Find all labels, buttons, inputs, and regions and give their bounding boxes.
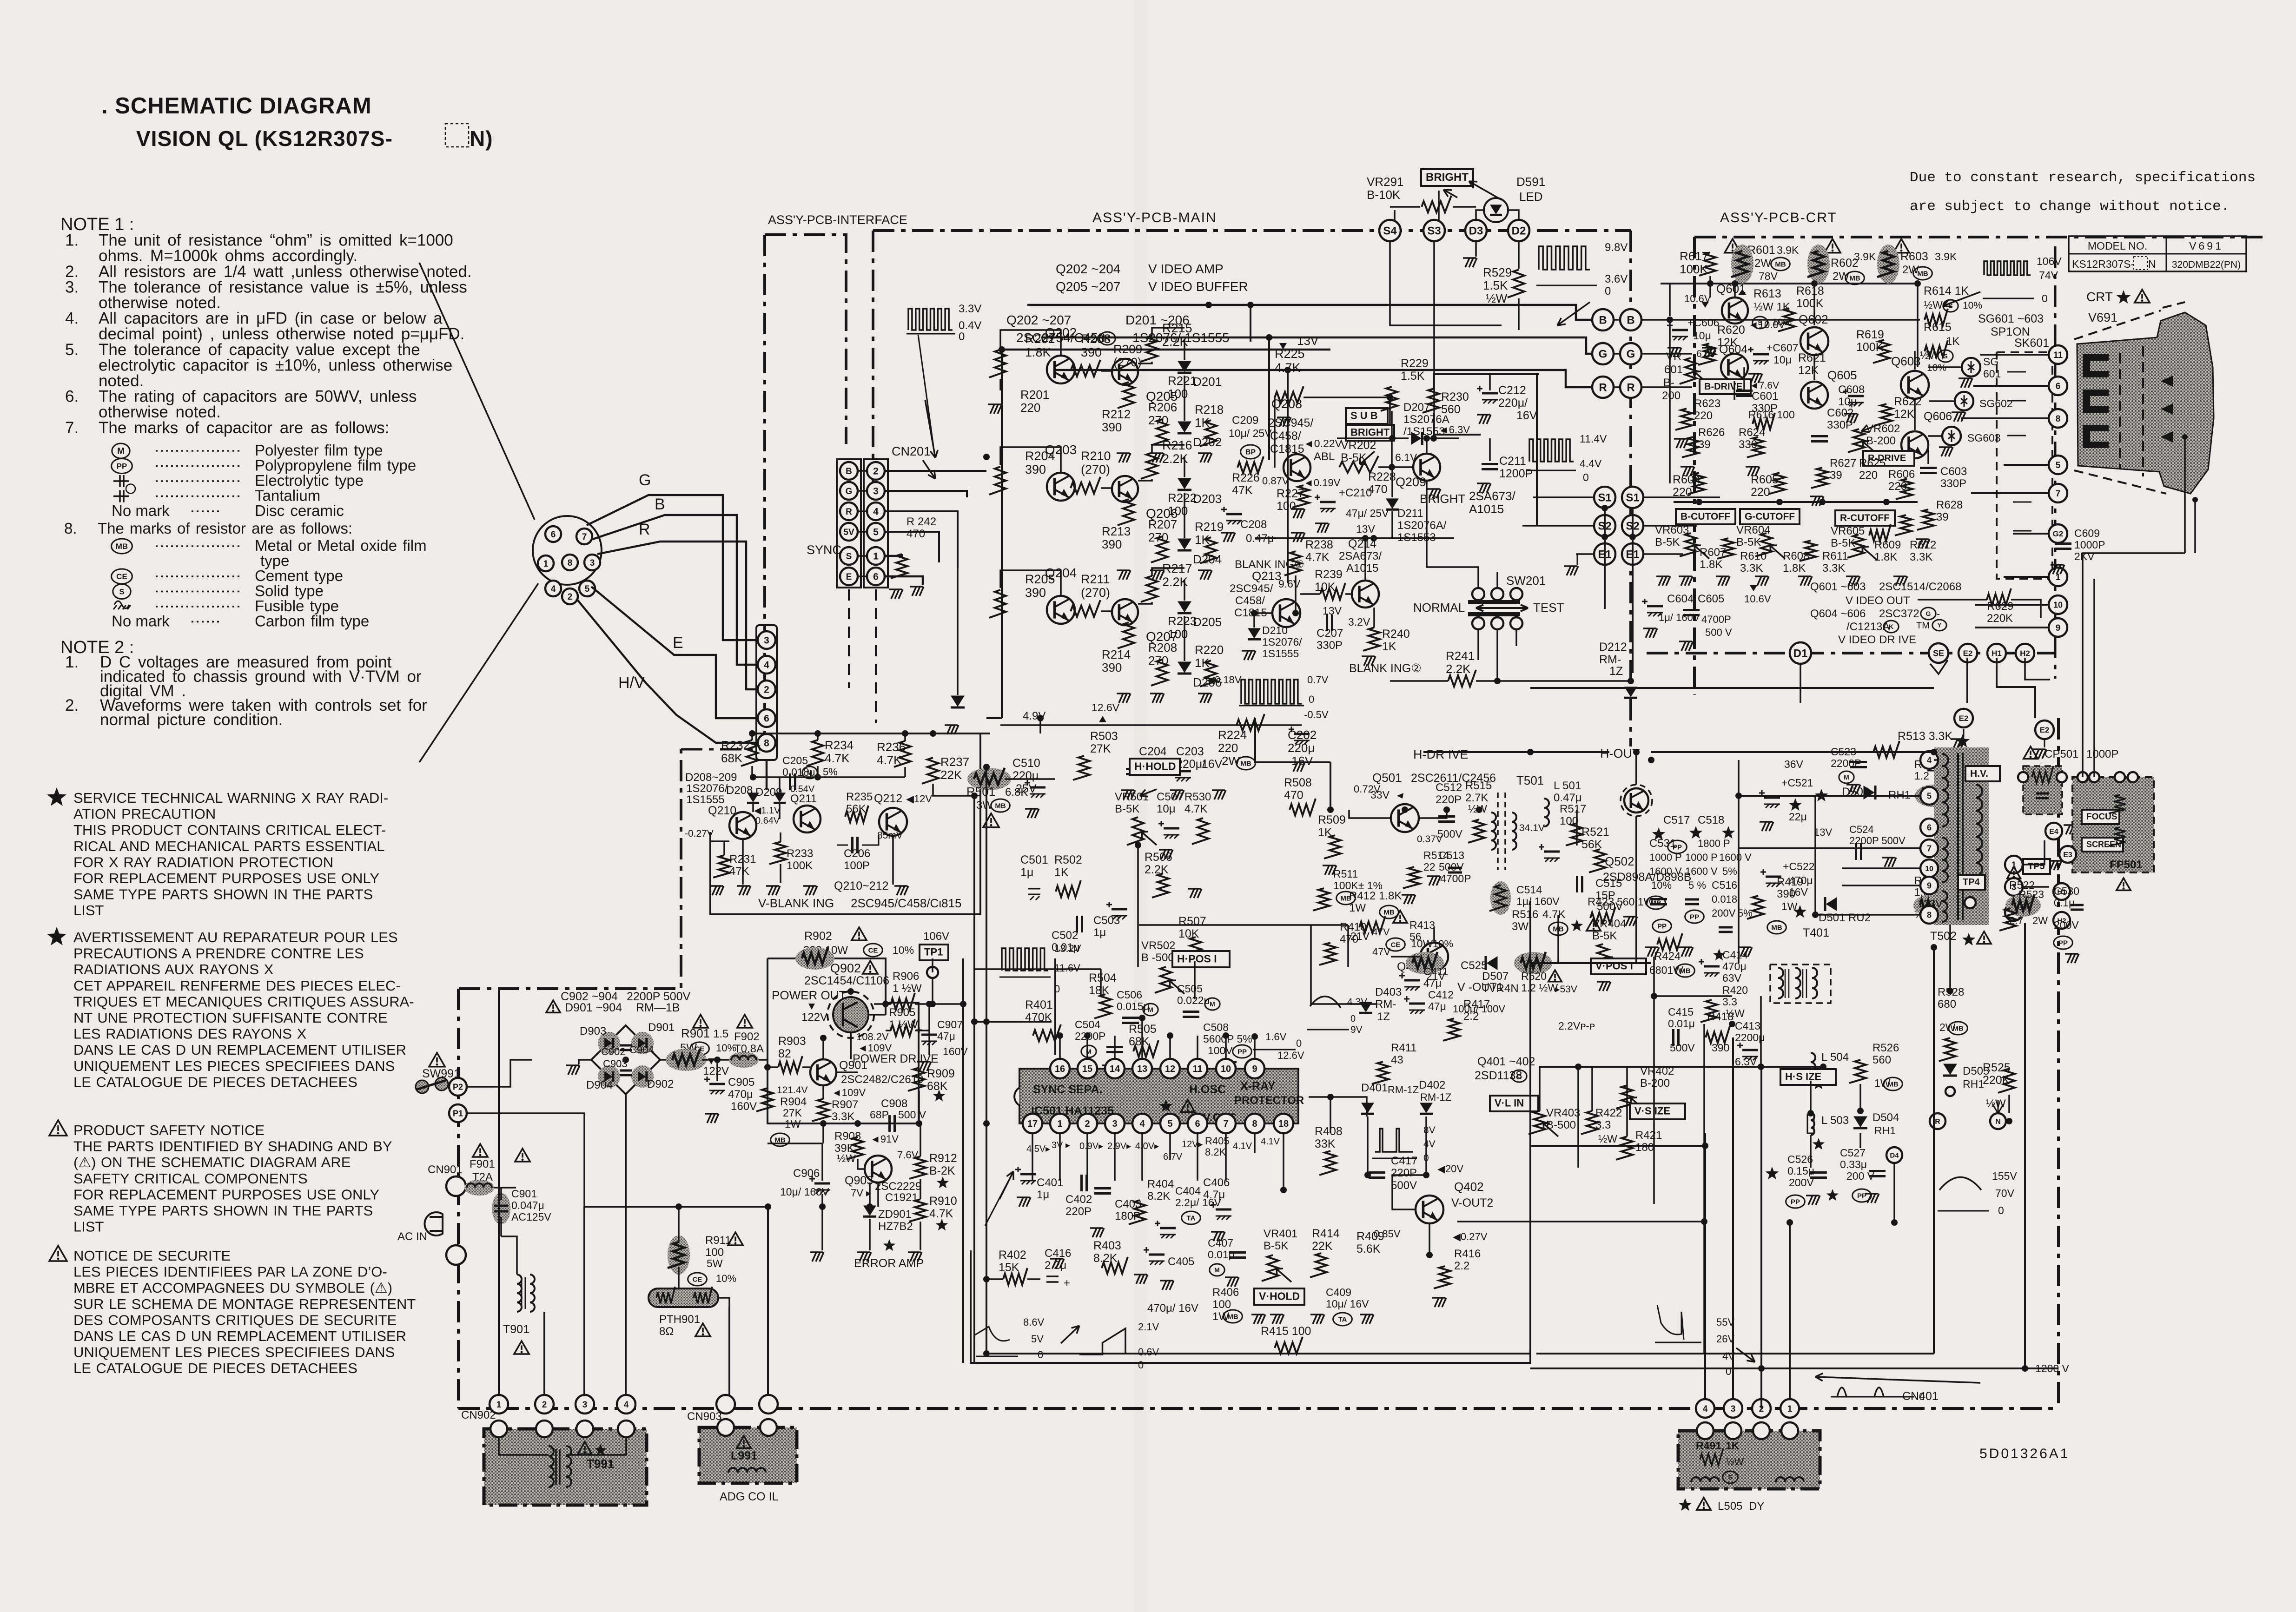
svg-text:9.8V: 9.8V bbox=[1605, 241, 1628, 254]
wire rail sync to amp B bbox=[885, 470, 986, 472]
svg-text:470: 470 bbox=[906, 528, 925, 540]
svg-text:2.2K: 2.2K bbox=[1145, 863, 1169, 876]
svg-text:C211: C211 bbox=[1499, 455, 1526, 468]
svg-text:6: 6 bbox=[551, 530, 556, 540]
svg-text:2: 2 bbox=[873, 466, 879, 477]
svg-text:DY: DY bbox=[1749, 1500, 1764, 1513]
svg-text:V-OUT2: V-OUT2 bbox=[1451, 1196, 1493, 1209]
FP501 box bbox=[2072, 777, 2154, 872]
svg-text:2.2: 2.2 bbox=[1454, 1260, 1469, 1272]
svg-text:R: R bbox=[1627, 382, 1634, 394]
svg-text:C908: C908 bbox=[881, 1097, 907, 1110]
svg-text:100K: 100K bbox=[787, 859, 813, 872]
sync pin 5V link bbox=[858, 531, 867, 533]
flyback T502 bbox=[1934, 747, 1989, 925]
NORMAL-TEST vertical wires bbox=[1604, 508, 1606, 576]
svg-text:Q205 ~207: Q205 ~207 bbox=[1056, 279, 1120, 294]
IC501 pin 14 bbox=[1105, 1059, 1125, 1078]
svg-text:R: R bbox=[846, 507, 852, 517]
svg-text:FOR REPLACEMENT PURPOSES US: FOR REPLACEMENT PURPOSES USE ONLY bbox=[73, 1186, 379, 1202]
svg-text:4.0V▸: 4.0V▸ bbox=[1135, 1141, 1159, 1151]
svg-text:11: 11 bbox=[1192, 1064, 1202, 1074]
svg-text:R526: R526 bbox=[1873, 1042, 1899, 1054]
svg-text:3.3K: 3.3K bbox=[1910, 551, 1932, 563]
H-SIZE box bbox=[1780, 1069, 1836, 1085]
svg-text:C601: C601 bbox=[1752, 390, 1778, 403]
power boundary jog bbox=[459, 749, 681, 989]
svg-text:4: 4 bbox=[1139, 1119, 1145, 1129]
svg-text:3: 3 bbox=[764, 635, 769, 646]
svg-text:2: 2 bbox=[1085, 1119, 1090, 1129]
note1 capacitor mark legend bbox=[112, 443, 130, 458]
svg-text:4: 4 bbox=[624, 1400, 629, 1410]
svg-text:5: 5 bbox=[585, 584, 590, 594]
crt pin 7 bbox=[2049, 484, 2067, 502]
svg-text:1μ/ 160V: 1μ/ 160V bbox=[1516, 895, 1560, 907]
sync pin 5V bbox=[840, 523, 858, 541]
svg-text:15K: 15K bbox=[999, 1261, 1019, 1274]
svg-text:3: 3 bbox=[873, 486, 879, 497]
svg-text:10: 10 bbox=[1925, 865, 1933, 873]
svg-text:TM: TM bbox=[1916, 621, 1930, 631]
svg-text:3.3: 3.3 bbox=[1722, 996, 1737, 1008]
svg-text:470μ: 470μ bbox=[1789, 874, 1813, 886]
svg-text:PP: PP bbox=[2058, 939, 2068, 947]
svg-text:68K: 68K bbox=[1129, 1035, 1150, 1048]
svg-text:VR502: VR502 bbox=[1141, 939, 1175, 952]
svg-text:D208~209: D208~209 bbox=[685, 771, 737, 784]
svg-text:R230: R230 bbox=[1441, 390, 1469, 403]
svg-text:R501: R501 bbox=[966, 785, 995, 799]
svg-text:56K: 56K bbox=[846, 803, 866, 815]
svg-text:R613: R613 bbox=[1753, 287, 1781, 300]
DIN pin 3 bbox=[584, 555, 600, 570]
wire hout rail long bbox=[1423, 751, 1530, 753]
svg-text:5D01326A1: 5D01326A1 bbox=[1979, 1446, 2070, 1461]
svg-text:26V: 26V bbox=[1716, 1333, 1734, 1345]
svg-text:R240: R240 bbox=[1382, 628, 1410, 641]
svg-text:470μ: 470μ bbox=[728, 1088, 753, 1101]
svg-text:R627: R627 bbox=[1830, 457, 1856, 469]
svg-text:KS12R307S-: KS12R307S- bbox=[2072, 258, 2134, 270]
svg-text:R521: R521 bbox=[1581, 826, 1609, 839]
svg-text:2SC1514/C2068: 2SC1514/C2068 bbox=[1879, 581, 1961, 593]
svg-text:2200P 500V: 2200P 500V bbox=[1849, 835, 1906, 846]
D505 labels bbox=[1943, 1064, 1957, 1075]
svg-text:S: S bbox=[1948, 302, 1952, 310]
svg-text:CP501: CP501 bbox=[2045, 748, 2078, 760]
svg-text:100: 100 bbox=[1277, 500, 1296, 513]
svg-text:8.: 8. bbox=[64, 520, 77, 537]
wire rail hout top bbox=[1530, 751, 1609, 753]
svg-text:H·S IZE: H·S IZE bbox=[1785, 1071, 1821, 1083]
P1 conn bbox=[449, 1104, 467, 1122]
sw201 right rail bbox=[1536, 374, 1538, 525]
wire flyback 9 wire bbox=[1842, 885, 1920, 886]
svg-text:VR202: VR202 bbox=[1341, 439, 1376, 452]
svg-text:+C606: +C606 bbox=[1687, 317, 1719, 329]
B-DRIVE box bbox=[1700, 379, 1751, 394]
svg-text:10%: 10% bbox=[1433, 938, 1453, 950]
svg-text:MB: MB bbox=[1917, 270, 1928, 277]
svg-text:X-RAY: X-RAY bbox=[1240, 1080, 1276, 1093]
svg-text:9: 9 bbox=[2056, 623, 2061, 633]
svg-text:G: G bbox=[1627, 348, 1635, 361]
svg-text:5%: 5% bbox=[1722, 865, 1737, 877]
svg-text:SAME TYPE PARTS SHOWN IN: SAME TYPE PARTS SHOWN IN THE PARTS bbox=[73, 886, 373, 903]
svg-text:0: 0 bbox=[2042, 292, 2048, 304]
svg-text:108.2V: 108.2V bbox=[856, 1031, 889, 1043]
svg-text:R210: R210 bbox=[1081, 449, 1111, 463]
E2 conn lower bbox=[1954, 709, 1973, 727]
svg-text:L 504: L 504 bbox=[1821, 1051, 1849, 1064]
svg-text:106V: 106V bbox=[2037, 255, 2062, 267]
DIN pin 2 bbox=[562, 588, 578, 604]
svg-text:+C607: +C607 bbox=[1767, 342, 1798, 354]
svg-text:R912: R912 bbox=[929, 1152, 957, 1165]
svg-text:Q603: Q603 bbox=[1891, 354, 1921, 368]
svg-text:2: 2 bbox=[764, 685, 769, 695]
R601 shaded 2W bbox=[1725, 239, 1740, 253]
svg-text:C902: C902 bbox=[601, 1046, 626, 1057]
svg-text:+C522: +C522 bbox=[1783, 860, 1814, 872]
svg-text:FP501: FP501 bbox=[2110, 859, 2143, 871]
svg-text:10: 10 bbox=[1221, 1064, 1231, 1074]
svg-text:B-5K: B-5K bbox=[1264, 1240, 1288, 1252]
svg-text:E: E bbox=[846, 572, 852, 582]
svg-text:◄0.19V: ◄0.19V bbox=[1303, 477, 1341, 489]
svg-text:4.1V: 4.1V bbox=[1233, 1141, 1252, 1151]
bus powerrail x2122 bbox=[986, 1022, 987, 1354]
wire q401 base wire bbox=[1391, 956, 1420, 958]
svg-text:RH1: RH1 bbox=[1963, 1078, 1984, 1090]
svg-text:2W: 2W bbox=[1754, 257, 1771, 270]
video bias diode bbox=[951, 696, 965, 707]
svg-text:16V: 16V bbox=[1202, 758, 1223, 771]
crt funnel drop wires bbox=[2083, 553, 2185, 590]
wire ic pin13 up bbox=[1141, 1018, 1143, 1059]
notice de securite bbox=[49, 1246, 67, 1261]
svg-text:R517: R517 bbox=[1560, 803, 1586, 815]
svg-text:10.6V: 10.6V bbox=[1744, 593, 1771, 605]
svg-text:C458/: C458/ bbox=[1235, 595, 1265, 607]
bus pwr out col bbox=[868, 1014, 886, 1016]
svg-text:◄91V: ◄91V bbox=[870, 1133, 899, 1145]
wire R bbox=[597, 542, 755, 689]
svg-text:V IDEO DR IVE: V IDEO DR IVE bbox=[1838, 634, 1916, 646]
svg-text:E2: E2 bbox=[1959, 714, 1969, 723]
svg-text:SYNC SEPA.: SYNC SEPA. bbox=[1033, 1083, 1103, 1096]
svg-text:R418: R418 bbox=[1707, 1011, 1734, 1023]
svg-text:V-BLANK ING: V-BLANK ING bbox=[758, 896, 834, 910]
svg-text:12: 12 bbox=[1165, 1064, 1175, 1074]
SE conn bbox=[1929, 643, 1948, 663]
svg-text:SG602: SG602 bbox=[1979, 397, 2013, 410]
svg-text:Q606: Q606 bbox=[1924, 410, 1952, 423]
svg-text:S1: S1 bbox=[1626, 492, 1639, 504]
svg-text:5 %: 5 % bbox=[1688, 879, 1706, 891]
SG601 spark gap bbox=[1962, 358, 1980, 377]
svg-text:36V: 36V bbox=[1784, 758, 1804, 770]
wire hdeflect col bbox=[1760, 1368, 1762, 1408]
T991 box bbox=[484, 1429, 647, 1505]
svg-text:M: M bbox=[1214, 1266, 1220, 1274]
svg-text:47μ: 47μ bbox=[937, 1030, 955, 1042]
svg-text:47K: 47K bbox=[1232, 484, 1253, 497]
input waveform bbox=[908, 309, 953, 330]
svg-text:1000 P: 1000 P bbox=[1685, 852, 1718, 863]
svg-text:1: 1 bbox=[1057, 1119, 1062, 1129]
D210 diode bbox=[1248, 628, 1261, 638]
svg-text:Due to constant research, spec: Due to constant research, specifications bbox=[1910, 170, 2256, 186]
wire bottom sweeps bbox=[1704, 1133, 1706, 1398]
svg-text:V·L IN: V·L IN bbox=[1495, 1097, 1524, 1109]
C531 C517 C518 cluster bbox=[1652, 827, 1666, 840]
S3 conn bbox=[1423, 220, 1445, 241]
mid horizontal 2465 bbox=[1530, 1145, 1705, 1147]
Q401 wires hdrive bbox=[1330, 809, 1445, 810]
svg-text:C414: C414 bbox=[1722, 949, 1748, 961]
svg-text:T401: T401 bbox=[1803, 926, 1829, 939]
svg-text:6.6V: 6.6V bbox=[1696, 349, 1716, 359]
svg-text:M: M bbox=[1148, 1006, 1153, 1013]
wire q402 base wire bbox=[1392, 1190, 1416, 1209]
svg-text:S: S bbox=[119, 587, 124, 596]
svg-text:R515: R515 bbox=[1465, 780, 1492, 792]
svg-text:C: C bbox=[1517, 1072, 1522, 1080]
svg-text:B-5K: B-5K bbox=[1115, 803, 1139, 815]
svg-text:7.: 7. bbox=[65, 419, 79, 437]
svg-text:220: 220 bbox=[1751, 486, 1770, 499]
svg-text:220K: 220K bbox=[1987, 612, 2013, 625]
svg-text:CN902: CN902 bbox=[461, 1409, 496, 1421]
svg-text:1Z: 1Z bbox=[1609, 665, 1623, 678]
svg-text:Q202 ~204: Q202 ~204 bbox=[1056, 262, 1120, 276]
svg-text:R506: R506 bbox=[1145, 851, 1172, 864]
svg-text:3.6V: 3.6V bbox=[1605, 273, 1628, 285]
svg-text:Q601 ~603: Q601 ~603 bbox=[1810, 581, 1866, 593]
svg-text:R219: R219 bbox=[1195, 520, 1224, 534]
G conn pair bbox=[1592, 343, 1614, 364]
svg-text:◀1.1V: ◀1.1V bbox=[754, 806, 781, 816]
svg-text:1.8K: 1.8K bbox=[1700, 558, 1722, 571]
svg-text:R: R bbox=[1935, 1118, 1940, 1126]
svg-text:IC501 HA11235: IC501 HA11235 bbox=[1031, 1104, 1114, 1117]
svg-text:0.4V: 0.4V bbox=[959, 319, 981, 332]
svg-text:R410: R410 bbox=[1340, 921, 1366, 933]
svg-text:8.2K: 8.2K bbox=[1147, 1190, 1170, 1202]
svg-text:M: M bbox=[1844, 773, 1849, 781]
F901 fuse bbox=[473, 1144, 488, 1157]
wire ic pin17 down bbox=[1032, 1133, 1033, 1181]
wire long rail 12.6V bbox=[986, 717, 1002, 719]
bus c908 rail bbox=[768, 1123, 884, 1124]
svg-text:L 503: L 503 bbox=[1821, 1114, 1849, 1127]
svg-text:8: 8 bbox=[2056, 414, 2061, 424]
svg-text:220μ: 220μ bbox=[1012, 769, 1039, 782]
svg-text:1: 1 bbox=[2056, 573, 2061, 582]
svg-text:2SC2229: 2SC2229 bbox=[875, 1180, 921, 1193]
svg-text:C531: C531 bbox=[1649, 837, 1676, 850]
svg-text:1.2: 1.2 bbox=[1914, 770, 1929, 782]
svg-text:1μ: 1μ bbox=[1020, 866, 1033, 879]
svg-text:0.54V: 0.54V bbox=[790, 784, 815, 794]
svg-text:D504: D504 bbox=[1873, 1111, 1899, 1124]
svg-text:R508: R508 bbox=[1284, 776, 1312, 789]
R911 resistor bbox=[728, 1232, 743, 1245]
svg-text:B: B bbox=[1599, 314, 1607, 327]
svg-text:R609: R609 bbox=[1874, 539, 1901, 551]
svg-text:C412: C412 bbox=[1428, 989, 1454, 1001]
D209 diode bbox=[774, 793, 786, 802]
svg-text:2SC372: 2SC372 bbox=[1879, 608, 1919, 620]
svg-text:R902: R902 bbox=[804, 930, 832, 943]
D1 conn bbox=[1790, 642, 1811, 664]
wire h rail video top bbox=[1001, 350, 1003, 718]
svg-text:L505: L505 bbox=[1718, 1500, 1742, 1513]
svg-text:R239: R239 bbox=[1315, 568, 1343, 581]
svg-text:are subject to change without: are subject to change without notice. bbox=[1910, 198, 2230, 215]
svg-text:9.6V: 9.6V bbox=[1278, 578, 1301, 590]
svg-text:R628: R628 bbox=[1936, 499, 1963, 511]
svg-text:8Ω: 8Ω bbox=[659, 1325, 674, 1338]
svg-text:12K: 12K bbox=[1798, 364, 1819, 377]
CRT funnel bbox=[2077, 312, 2214, 494]
svg-text:200V: 200V bbox=[2054, 919, 2079, 931]
hhold waveform bbox=[1002, 948, 1048, 971]
svg-text:RM-1Z: RM-1Z bbox=[1420, 1091, 1451, 1103]
svg-text:220μ/: 220μ/ bbox=[1498, 396, 1528, 410]
svg-text:R226: R226 bbox=[1232, 471, 1260, 484]
R501 shaded bbox=[967, 768, 1011, 790]
svg-text:2KV: 2KV bbox=[2074, 550, 2095, 562]
svg-text:H·HOLD: H·HOLD bbox=[1134, 760, 1176, 772]
svg-text:R238: R238 bbox=[1305, 538, 1333, 551]
right area long verticals bbox=[1933, 947, 1935, 1354]
svg-text:D1: D1 bbox=[1793, 647, 1808, 660]
svg-text:1S1555: 1S1555 bbox=[1262, 647, 1299, 660]
svg-text:3.9K: 3.9K bbox=[1777, 244, 1799, 256]
svg-text:R214: R214 bbox=[1102, 647, 1131, 661]
E4 gnd bbox=[2064, 825, 2078, 834]
svg-text:10μ: 10μ bbox=[1773, 354, 1792, 366]
svg-text:R423: R423 bbox=[1588, 896, 1614, 908]
D507 labels bbox=[1487, 956, 1498, 970]
svg-text:180: 180 bbox=[1635, 1141, 1654, 1154]
svg-text:ATION PRECAUTION: ATION PRECAUTION bbox=[73, 806, 216, 822]
svg-text:V691: V691 bbox=[2189, 240, 2223, 252]
svg-text:SE: SE bbox=[1933, 648, 1944, 658]
svg-text:10%: 10% bbox=[1651, 879, 1672, 891]
svg-text:C527: C527 bbox=[1840, 1147, 1866, 1159]
svg-text:1.8K: 1.8K bbox=[1025, 345, 1051, 359]
svg-text:4.7μ: 4.7μ bbox=[1203, 1189, 1225, 1201]
svg-text:R621: R621 bbox=[1798, 351, 1826, 364]
cn201 pin 1 bbox=[867, 547, 885, 565]
svg-text:4: 4 bbox=[1927, 755, 1932, 765]
svg-text:4.1V: 4.1V bbox=[1261, 1136, 1280, 1147]
svg-text:390: 390 bbox=[1102, 537, 1122, 551]
svg-text:C904: C904 bbox=[629, 1044, 654, 1056]
svg-text:TA: TA bbox=[1187, 1214, 1196, 1222]
PTH901 thermistor bbox=[648, 1288, 718, 1307]
svg-text:2.2Vᴘ-ᴘ: 2.2Vᴘ-ᴘ bbox=[1558, 1020, 1595, 1032]
svg-text:2: 2 bbox=[542, 1400, 547, 1410]
svg-text:G: G bbox=[1926, 610, 1931, 617]
svg-text:470μ/ 16V: 470μ/ 16V bbox=[1147, 1302, 1198, 1315]
svg-text:13V: 13V bbox=[1814, 826, 1832, 838]
svg-text:1600 V: 1600 V bbox=[1649, 865, 1682, 877]
svg-text:0: 0 bbox=[1583, 471, 1589, 483]
svg-text:BRIGHT: BRIGHT bbox=[1426, 171, 1469, 184]
svg-text:R618: R618 bbox=[1796, 284, 1824, 297]
svg-text:C208: C208 bbox=[1240, 518, 1267, 531]
svg-text:10%: 10% bbox=[716, 1042, 736, 1054]
svg-text:C413: C413 bbox=[1735, 1020, 1760, 1032]
svg-text:R623: R623 bbox=[1694, 397, 1720, 410]
svg-text:3.9K: 3.9K bbox=[1854, 251, 1876, 263]
IC501 pin 12 bbox=[1160, 1059, 1180, 1078]
svg-text:4.7K: 4.7K bbox=[825, 751, 850, 765]
svg-text:27K: 27K bbox=[1090, 742, 1111, 755]
CP501 box bbox=[2024, 747, 2038, 759]
svg-text:The marks of capacitor are as: The marks of capacitor are as follows: bbox=[99, 419, 389, 437]
svg-text:220: 220 bbox=[1020, 401, 1040, 415]
svg-text:electrolytic capacitor is ±10%: electrolytic capacitor is ±10%, unless o… bbox=[99, 356, 452, 374]
svg-text:B-: B- bbox=[1663, 377, 1674, 389]
svg-text:9: 9 bbox=[1927, 881, 1932, 890]
svg-text:122V: 122V bbox=[703, 1065, 729, 1077]
svg-text:C513: C513 bbox=[1439, 849, 1464, 861]
wire flyback7 wire bbox=[1739, 847, 1920, 849]
svg-text:R523: R523 bbox=[2018, 888, 2044, 900]
bridge rectifier bbox=[591, 1025, 660, 1094]
svg-text:R: R bbox=[1599, 382, 1607, 394]
svg-text:200: 200 bbox=[1662, 390, 1681, 402]
cable fan lines bbox=[419, 263, 535, 520]
svg-text:0.1μ: 0.1μ bbox=[2054, 897, 2075, 909]
svg-text:CE: CE bbox=[693, 1275, 702, 1283]
svg-text:◀0.18V: ◀0.18V bbox=[1207, 674, 1242, 686]
svg-text:1K: 1K bbox=[2018, 900, 2032, 912]
svg-text:10K: 10K bbox=[1315, 581, 1336, 594]
svg-text:6: 6 bbox=[1927, 823, 1932, 832]
H1 H2 to flyback wires bbox=[2062, 886, 2078, 900]
svg-text:MB: MB bbox=[1240, 760, 1251, 767]
svg-text:H.V.: H.V. bbox=[1970, 768, 1988, 779]
svg-text:D201: D201 bbox=[1193, 375, 1222, 389]
svg-text:Polyester film type: Polyester film type bbox=[255, 442, 383, 459]
svg-text:330P: 330P bbox=[1317, 639, 1343, 652]
wire hdrive out bbox=[1419, 810, 1447, 818]
svg-text:-: - bbox=[1937, 608, 1940, 620]
svg-text:16: 16 bbox=[1055, 1064, 1065, 1074]
svg-text:390: 390 bbox=[1102, 661, 1122, 674]
svg-text:ASS'Y-PCB-INTERFACE: ASS'Y-PCB-INTERFACE bbox=[768, 213, 907, 227]
svg-text:155V: 155V bbox=[1992, 1170, 2017, 1182]
svg-text:0.047μ: 0.047μ bbox=[511, 1199, 544, 1211]
R-CUTOFF box bbox=[1835, 510, 1895, 526]
svg-text:47μ: 47μ bbox=[1423, 977, 1442, 989]
svg-text:R414: R414 bbox=[1312, 1227, 1340, 1240]
svg-text:11.6V: 11.6V bbox=[1054, 962, 1080, 974]
svg-text:G: G bbox=[639, 471, 651, 489]
svg-text:8.2K: 8.2K bbox=[1093, 1252, 1118, 1265]
svg-text:R415 100: R415 100 bbox=[1261, 1325, 1311, 1338]
SW991 switch bbox=[429, 1053, 445, 1067]
svg-text:LES RADIATIONS DES RAYONS: LES RADIATIONS DES RAYONS X bbox=[73, 1026, 307, 1042]
svg-text:9: 9 bbox=[1252, 1064, 1257, 1074]
